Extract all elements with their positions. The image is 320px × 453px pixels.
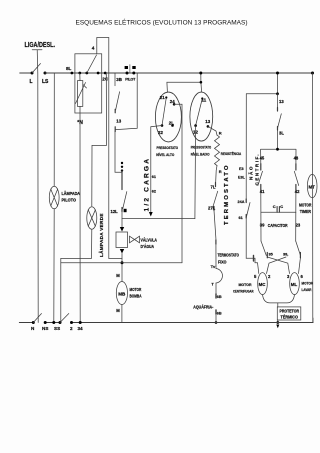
- svg-text:7L: 7L: [211, 185, 216, 190]
- wire 12 drop: [194, 126, 197, 219]
- svg-text:PRESSOSTATO: PRESSOSTATO: [157, 145, 179, 150]
- svg-text:LAVAR: LAVAR: [302, 288, 312, 292]
- svg-text:ESQUEMAS ELÉTRICOS (EVOLUTION: ESQUEMAS ELÉTRICOS (EVOLUTION 13 PROGRAM…: [76, 18, 248, 27]
- node top right: [311, 72, 314, 75]
- node 8L: [71, 72, 74, 75]
- node L: [31, 72, 34, 75]
- svg-text:L: L: [30, 79, 33, 85]
- svg-text:NÍVEL ALTO: NÍVEL ALTO: [156, 152, 174, 157]
- svg-text:PILOTO: PILOTO: [62, 198, 77, 203]
- switch NÃO CENTRIF: [245, 94, 247, 202]
- pressostato nivel alto branch wire: [167, 73, 202, 92]
- svg-text:M: M: [116, 308, 120, 313]
- contact 45-41: [260, 164, 262, 170]
- switch blade L-LS: [32, 64, 41, 74]
- resistor RESISTÊNCIA: [215, 135, 220, 166]
- node 13p: [207, 125, 210, 128]
- wire valve branch: [115, 131, 122, 172]
- motor timer MT: [307, 174, 317, 197]
- wire PILOT drop: [115, 73, 137, 130]
- svg-text:6B: 6B: [217, 311, 222, 315]
- svg-text:MB: MB: [118, 291, 126, 296]
- svg-text:13: 13: [279, 99, 284, 104]
- node SS2: [59, 321, 62, 324]
- svg-text:*N: *N: [77, 120, 83, 126]
- wire valve to rail: [121, 254, 123, 282]
- pump motor MB: [116, 282, 127, 305]
- svg-text:C: C: [273, 204, 276, 209]
- svg-text:2: 2: [70, 326, 73, 331]
- svg-text:2L: 2L: [169, 121, 174, 126]
- connector PILOT: [125, 66, 128, 69]
- svg-text:39,: 39,: [283, 253, 288, 257]
- capacitor C C: [261, 211, 296, 213]
- svg-text:CENTRIFUGAR: CENTRIFUGAR: [233, 290, 254, 294]
- motor matrix top rail: [261, 149, 296, 164]
- svg-text:RESISTÊNCIA: RESISTÊNCIA: [221, 151, 242, 156]
- wire 24 jog down: [174, 104, 182, 262]
- svg-text:ML: ML: [291, 282, 298, 287]
- svg-text:48: 48: [294, 155, 299, 160]
- motor MC: [258, 273, 268, 295]
- svg-text:23: 23: [296, 222, 301, 227]
- svg-text:35: 35: [269, 253, 273, 257]
- node 2: [70, 321, 73, 324]
- node timer c: [97, 72, 100, 75]
- wire thermostat down: [214, 211, 216, 269]
- wire nao centrif to MC: [246, 258, 259, 273]
- switch 3B-13: [114, 73, 116, 86]
- node SS1: [52, 321, 55, 324]
- protetor térmico box: [277, 307, 301, 320]
- wire protetor to bus: [277, 320, 279, 323]
- svg-text:BOMBA: BOMBA: [130, 294, 142, 299]
- svg-text:VÁLVULA: VÁLVULA: [141, 238, 158, 243]
- switch coupling link wire: [32, 50, 42, 323]
- node LS: [44, 72, 47, 75]
- timer contact blade to 4: [87, 55, 97, 73]
- node 2L: [171, 124, 174, 127]
- node 22: [161, 124, 164, 127]
- svg-text:24A: 24A: [238, 200, 245, 204]
- wire 2C drop to green lamp: [92, 73, 107, 206]
- node timer b: [85, 72, 88, 75]
- svg-text:11: 11: [202, 98, 207, 103]
- bottom bus wire: [19, 322, 313, 324]
- top bus wire main: [45, 72, 313, 74]
- timer block box: [75, 54, 102, 113]
- blade N-NS: [33, 314, 41, 323]
- node 2C: [104, 72, 107, 75]
- svg-text:MC: MC: [259, 282, 267, 287]
- fixed thermostat arc: [216, 269, 222, 284]
- svg-text:PILOT: PILOT: [125, 77, 136, 81]
- wire 22 half load: [151, 126, 162, 213]
- wire aquafria to bus: [215, 310, 217, 323]
- svg-text:D'ÁGUA: D'ÁGUA: [141, 244, 155, 249]
- svg-text:LS: LS: [42, 79, 49, 85]
- svg-text:R: R: [219, 131, 222, 136]
- svg-text:Tv: Tv: [211, 264, 216, 269]
- svg-text:C: C: [280, 204, 283, 209]
- svg-text:PRESSOSTATO: PRESSOSTATO: [191, 144, 212, 149]
- svg-text:CAPACITOR: CAPACITOR: [268, 223, 288, 228]
- svg-text:3L: 3L: [279, 131, 284, 136]
- svg-text:13: 13: [205, 119, 210, 124]
- wire green lamp to rail A: [61, 229, 92, 322]
- svg-text:MOTOR: MOTOR: [302, 282, 314, 286]
- pressostato NÍVEL BAIXO ellipse: [190, 92, 213, 141]
- svg-text:TERMOSTATO: TERMOSTATO: [218, 253, 240, 258]
- contact 48-42: [295, 164, 297, 170]
- node 34: [79, 321, 82, 324]
- svg-text:E3: E3: [239, 167, 244, 171]
- svg-text:LIGA/DESL.: LIGA/DESL.: [25, 40, 56, 49]
- svg-text:MOTOR: MOTOR: [239, 283, 252, 287]
- svg-text:NÃO: NÃO: [248, 166, 254, 180]
- valve enclosure box: [122, 218, 195, 220]
- X crossing reversing contacts: [261, 241, 266, 256]
- wire resistor feed: [79, 73, 81, 323]
- svg-text:61: 61: [152, 175, 156, 179]
- svg-text:13: 13: [116, 119, 121, 124]
- svg-text:MT: MT: [309, 184, 316, 189]
- svg-text:NÍVEL BAIXO: NÍVEL BAIXO: [191, 152, 210, 157]
- pilot lamp: [53, 73, 55, 186]
- svg-text:12L: 12L: [111, 209, 119, 214]
- wire to aquafria: [215, 283, 217, 298]
- right edge wire: [312, 73, 314, 323]
- thermostat switch TERMOSTATO: [213, 191, 218, 206]
- node branch: [199, 72, 202, 75]
- wire terminal 4 loop: [97, 38, 122, 259]
- svg-text:27L: 27L: [208, 206, 216, 211]
- svg-text:LÂMPADA VERDE: LÂMPADA VERDE: [98, 214, 104, 258]
- svg-text:24: 24: [170, 99, 175, 104]
- svg-text:4: 4: [92, 46, 95, 52]
- blade 12-11: [196, 99, 203, 126]
- green lamp: [87, 207, 97, 229]
- svg-text:FIXO: FIXO: [218, 260, 227, 265]
- svg-text:62: 62: [152, 190, 156, 194]
- svg-text:AQUÁFRIA-: AQUÁFRIA-: [193, 305, 214, 310]
- wire 13 to resistor: [208, 126, 217, 135]
- wire motors common: [263, 295, 295, 303]
- variable resistor in timer: [78, 81, 83, 107]
- node timer a: [78, 72, 81, 75]
- water valve VÁLVULA D'ÁGUA: [120, 227, 124, 232]
- rail B wire: [61, 262, 182, 264]
- svg-text:6B: 6B: [217, 295, 222, 299]
- pressostato NÍVEL ALTO ellipse: [155, 92, 181, 142]
- node 12: [194, 124, 197, 127]
- node valve rail: [121, 261, 124, 264]
- node 24: [173, 103, 176, 106]
- svg-text:TÉRMICO: TÉRMICO: [281, 315, 299, 320]
- svg-text:42: 42: [295, 189, 300, 194]
- svg-text:LÂMPADA: LÂMPADA: [62, 191, 81, 196]
- svg-text:3B: 3B: [116, 77, 122, 82]
- svg-text:E3L: E3L: [238, 176, 246, 180]
- svg-text:34: 34: [78, 326, 84, 331]
- svg-text:21: 21: [160, 95, 165, 100]
- svg-text:39: 39: [260, 222, 265, 227]
- wire pilot lamp to bottom bus: [53, 209, 55, 323]
- switch 13-3L: [277, 94, 279, 109]
- svg-text:MOTOR: MOTOR: [130, 287, 142, 292]
- svg-text:M: M: [116, 273, 120, 278]
- svg-text:PROTETOR: PROTETOR: [280, 309, 300, 314]
- motor ML: [290, 273, 300, 295]
- svg-text:TIMER: TIMER: [300, 209, 311, 214]
- wire right branch: [246, 73, 277, 258]
- svg-text:61: 61: [239, 216, 243, 220]
- node N: [32, 321, 35, 324]
- connector AQUÁFRIA: [215, 294, 217, 298]
- svg-text:2C: 2C: [102, 77, 109, 82]
- wire valve feed: [121, 212, 123, 228]
- svg-text:SS: SS: [54, 326, 60, 331]
- blade SS-2: [60, 314, 69, 323]
- svg-text:41: 41: [260, 189, 265, 194]
- svg-text:45: 45: [260, 155, 265, 160]
- node NS: [44, 321, 47, 324]
- svg-text:NS: NS: [42, 326, 48, 331]
- switch 2L valve: [121, 171, 123, 190]
- svg-text:22: 22: [158, 130, 163, 135]
- top bus wire left: [20, 72, 32, 74]
- wire resistor down: [216, 166, 218, 186]
- blade 22-21: [162, 98, 166, 126]
- connector dots valve branch: [121, 162, 123, 164]
- svg-text:MOTOR: MOTOR: [299, 203, 312, 208]
- svg-text:R: R: [219, 169, 222, 174]
- svg-text:8L: 8L: [66, 66, 72, 71]
- wire MB to bottom bus: [121, 305, 123, 323]
